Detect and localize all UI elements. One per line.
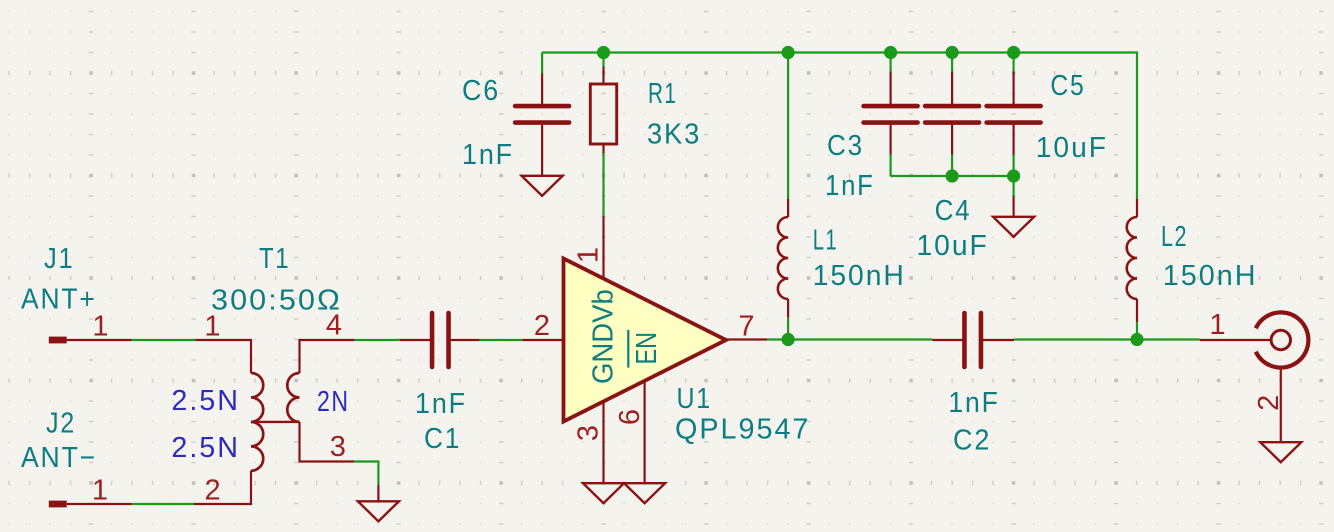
- svg-text:2: 2: [534, 310, 552, 342]
- svg-text:C5: C5: [1050, 70, 1085, 102]
- pin 1 U1: [602, 216, 604, 280]
- inductor L2: [1136, 199, 1138, 217]
- svg-text:3: 3: [330, 431, 348, 463]
- junction: [946, 169, 959, 182]
- junction: [782, 333, 795, 346]
- svg-text:6: 6: [614, 407, 646, 425]
- svg-text:2.5N: 2.5N: [171, 385, 240, 417]
- svg-text:2.5N: 2.5N: [171, 432, 240, 464]
- svg-text:2: 2: [205, 474, 223, 506]
- svg-text:J2: J2: [46, 407, 76, 439]
- connector J1: [49, 337, 67, 344]
- svg-text:EN: EN: [631, 332, 663, 365]
- svg-text:10uF: 10uF: [1036, 132, 1108, 164]
- ground: [358, 501, 399, 521]
- svg-text:2: 2: [1253, 393, 1285, 411]
- wire: [951, 155, 953, 177]
- junction: [946, 46, 959, 59]
- wire: [1014, 338, 1200, 340]
- svg-text:C2: C2: [953, 425, 991, 457]
- capacitor C6: [541, 74, 543, 107]
- svg-text:1: 1: [92, 311, 110, 343]
- capacitor C5: [1012, 72, 1014, 107]
- svg-text:150nH: 150nH: [1163, 260, 1258, 292]
- svg-text:T1: T1: [259, 243, 290, 275]
- junction: [1130, 333, 1143, 346]
- connector J2: [49, 501, 67, 508]
- wire: [1012, 155, 1014, 177]
- svg-text:1nF: 1nF: [415, 388, 467, 420]
- wire: [951, 53, 953, 72]
- ground: [624, 483, 665, 503]
- wire: [767, 338, 932, 340]
- svg-text:3K3: 3K3: [647, 118, 701, 150]
- svg-text:QPL9547: QPL9547: [675, 414, 810, 446]
- svg-text:1nF: 1nF: [462, 139, 514, 171]
- svg-text:R1: R1: [648, 78, 677, 110]
- pin 2 U1: [522, 339, 563, 341]
- wire: [541, 53, 543, 74]
- wire: [891, 175, 1014, 177]
- wire: [1012, 53, 1014, 72]
- svg-text:3: 3: [573, 423, 605, 441]
- wire: [889, 53, 891, 72]
- coax connector: [1256, 312, 1309, 367]
- junction: [1007, 169, 1020, 182]
- inductor L1: [787, 199, 789, 217]
- svg-text:1: 1: [1209, 309, 1227, 341]
- junction: [1007, 46, 1020, 59]
- ground: [583, 483, 624, 503]
- junction: [597, 46, 610, 59]
- svg-text:300:50Ω: 300:50Ω: [211, 285, 342, 317]
- capacitor C3: [889, 72, 891, 107]
- svg-text:ANT−: ANT−: [21, 442, 97, 474]
- pin 3 U1: [602, 401, 604, 483]
- svg-text:L1: L1: [813, 224, 838, 256]
- svg-text:1nF: 1nF: [825, 170, 875, 202]
- wire: [480, 339, 523, 341]
- svg-text:ANT+: ANT+: [21, 284, 97, 316]
- svg-text:4: 4: [326, 310, 344, 342]
- capacitor C4: [951, 72, 953, 107]
- wire: [354, 462, 378, 486]
- svg-text:1nF: 1nF: [948, 387, 999, 419]
- svg-text:1: 1: [204, 311, 222, 343]
- svg-text:L2: L2: [1161, 221, 1188, 253]
- wire: [787, 318, 789, 340]
- wire: [787, 53, 789, 199]
- pin 1 coax: [1200, 339, 1271, 341]
- resistor R1: [602, 67, 604, 85]
- wire: [132, 503, 194, 505]
- wire: [602, 53, 604, 67]
- svg-text:C1: C1: [424, 423, 461, 455]
- pin 6 U1: [643, 381, 645, 483]
- svg-text:1: 1: [92, 474, 110, 506]
- svg-text:10uF: 10uF: [917, 230, 989, 262]
- ground: [993, 217, 1034, 237]
- svg-text:GNDVb: GNDVb: [588, 289, 620, 384]
- svg-text:C6: C6: [462, 75, 500, 107]
- svg-text:C4: C4: [935, 195, 972, 227]
- wire: [542, 53, 1137, 199]
- wire: [889, 155, 891, 177]
- svg-text:1: 1: [573, 245, 605, 263]
- svg-text:2N: 2N: [317, 386, 350, 418]
- wire: [1136, 322, 1138, 339]
- wire: [1012, 176, 1014, 196]
- junction: [884, 46, 897, 59]
- capacitor C2: [932, 339, 964, 341]
- wire: [132, 339, 196, 341]
- wire: [602, 154, 604, 217]
- svg-text:U1: U1: [677, 383, 712, 415]
- svg-text:C3: C3: [827, 130, 864, 162]
- wire: [377, 485, 379, 501]
- ground: [1260, 442, 1301, 462]
- svg-text:150nH: 150nH: [813, 260, 906, 292]
- svg-text:7: 7: [738, 311, 756, 343]
- ground: [522, 176, 563, 196]
- wire: [1012, 196, 1014, 217]
- pin 2 coax: [1280, 368, 1282, 443]
- op-amp U1: [564, 259, 727, 422]
- pin 7 U1: [726, 338, 767, 340]
- svg-text:J1: J1: [44, 243, 74, 275]
- transformer T1: [195, 340, 251, 373]
- junction: [782, 46, 795, 59]
- capacitor C1: [400, 339, 432, 341]
- wire: [354, 339, 400, 341]
